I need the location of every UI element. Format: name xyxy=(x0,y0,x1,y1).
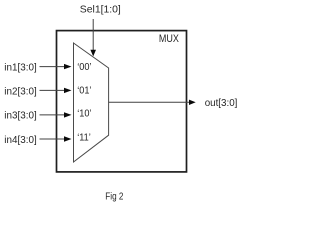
arrowhead out xyxy=(189,100,196,105)
wire in2 xyxy=(40,89,65,91)
svg-text:‘11’: ‘11’ xyxy=(77,132,91,144)
svg-text:Sel1[1:0]: Sel1[1:0] xyxy=(80,4,121,15)
svg-text:Fig 2: Fig 2 xyxy=(105,191,123,202)
arrowhead Sel1 into trapezoid xyxy=(90,50,96,57)
svg-text:in3[3:0]: in3[3:0] xyxy=(4,111,37,122)
svg-text:MUX: MUX xyxy=(159,33,179,45)
svg-text:‘10’: ‘10’ xyxy=(77,108,91,120)
svg-text:‘01’: ‘01’ xyxy=(77,85,91,97)
arrowhead in3 xyxy=(64,112,72,117)
wire out xyxy=(109,101,190,103)
wire in4 xyxy=(40,138,65,140)
mux enclosure box U1 xyxy=(57,31,187,172)
svg-text:in4[3:0]: in4[3:0] xyxy=(4,135,37,146)
arrowhead in2 xyxy=(64,88,72,93)
svg-text:in2[3:0]: in2[3:0] xyxy=(4,87,37,98)
wire in3 xyxy=(40,114,65,116)
wire Sel1 vertical xyxy=(92,19,94,51)
svg-text:‘00’: ‘00’ xyxy=(77,61,91,73)
svg-text:in1[3:0]: in1[3:0] xyxy=(4,62,37,73)
arrowhead in1 xyxy=(64,64,72,69)
mux trapezoid symbol xyxy=(74,43,109,162)
svg-text:out[3:0]: out[3:0] xyxy=(205,98,238,109)
wire in1 xyxy=(40,66,65,68)
arrowhead in4 xyxy=(64,136,72,141)
